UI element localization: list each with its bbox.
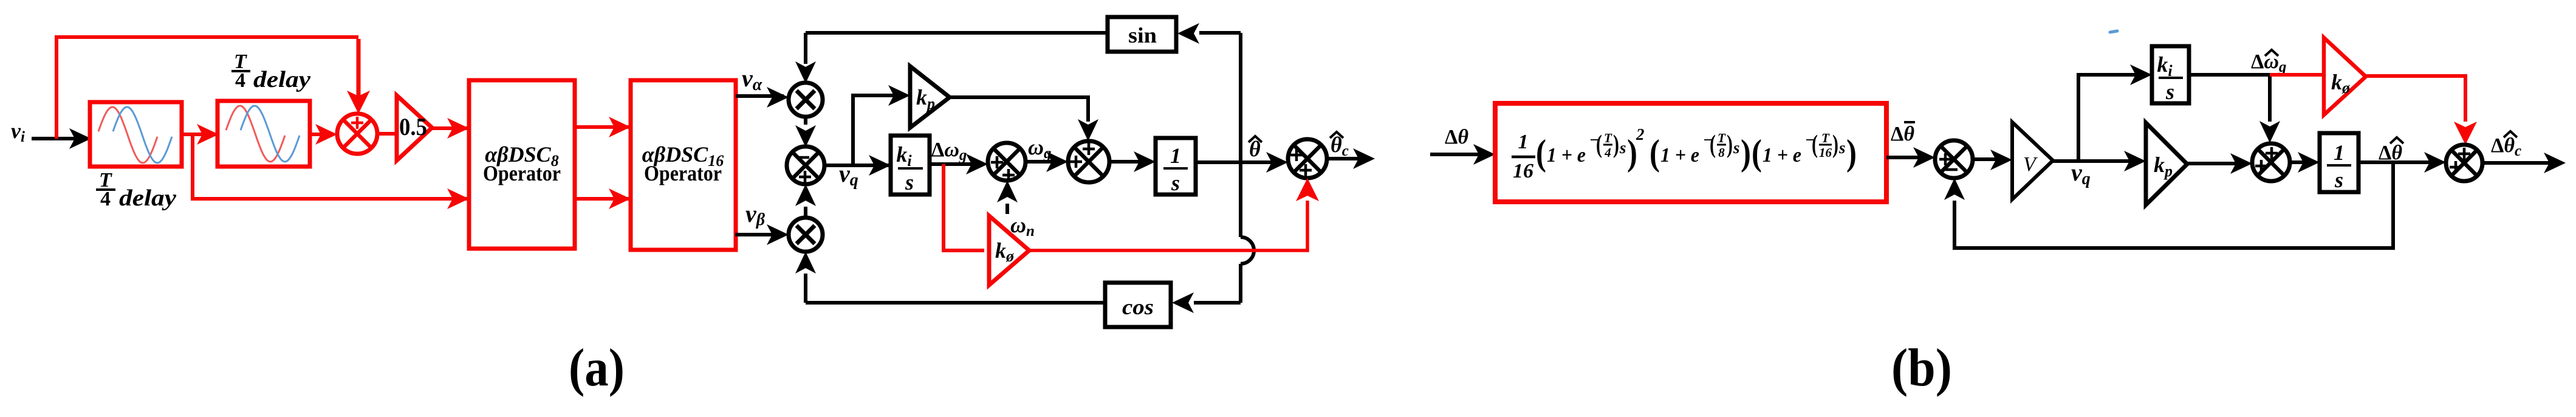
svg-text:4: 4 xyxy=(100,188,111,210)
waveform red sine box1 xyxy=(98,107,157,163)
arrowhead red into S4b top xyxy=(2454,122,2477,145)
arrowhead into S2b xyxy=(2230,153,2252,174)
arrowhead DSC16 upper input xyxy=(609,117,631,137)
wire hop over red line xyxy=(1241,237,1254,264)
wire v_q branch up to ki/s (b) xyxy=(2078,75,2147,161)
wire M1 to phase summing S2 xyxy=(804,117,807,125)
wire v_q branch up to kp xyxy=(853,95,905,165)
wire red top rail drop to multiplier xyxy=(357,39,361,97)
wire delay2 to multiplier xyxy=(310,133,333,136)
svg-text:s: s xyxy=(905,170,914,195)
svg-text:): ) xyxy=(1727,131,1733,159)
arrowhead kp into S3 top xyxy=(1078,119,1098,141)
svg-text:T: T xyxy=(1718,131,1726,145)
summing junction S2 (v_q) xyxy=(787,146,824,184)
arrowhead into ki/s (b) xyxy=(2130,64,2152,85)
svg-text:Δθ: Δθ xyxy=(1891,123,1914,145)
svg-text:delay: delay xyxy=(119,185,176,211)
svg-text:1: 1 xyxy=(1170,143,1181,168)
multiplier M1 v_alpha*sin xyxy=(789,83,823,117)
wire delta-theta input xyxy=(1430,153,1490,156)
svg-text:s: s xyxy=(1171,171,1180,195)
block T/4 delay 2 (waveform box) xyxy=(218,101,310,167)
gain block kp (b) xyxy=(2146,123,2187,205)
arrowhead v_q into ki/s block xyxy=(869,155,891,176)
wire theta_hat xyxy=(1196,160,1283,164)
multiplier M2 v_beta*cos xyxy=(789,218,823,252)
svg-text:2: 2 xyxy=(1636,125,1645,143)
svg-text:0.5: 0.5 xyxy=(399,113,427,140)
gain block V xyxy=(2012,122,2053,199)
svg-text:Δθ: Δθ xyxy=(2379,142,2402,164)
summing junction S1 (red, v_i + delayed) xyxy=(337,114,377,154)
wire feedback vertical theta to sin xyxy=(1239,33,1242,237)
summing junction S2b xyxy=(2252,143,2290,181)
svg-text:(: ( xyxy=(1596,131,1602,159)
arrowhead into S1b xyxy=(1913,147,1935,168)
wire kp to S2b xyxy=(2187,162,2247,165)
gain block 0.5 xyxy=(397,95,432,160)
block 1/s integrator (a) xyxy=(1156,138,1196,195)
arrowhead into sin box xyxy=(1177,23,1199,44)
wire omega_n xyxy=(1005,204,1009,214)
wire DSC8 to DSC16 upper xyxy=(575,125,631,129)
wire cos output to M2 column xyxy=(806,301,1105,305)
wire red to k_phi (b) xyxy=(2270,73,2324,77)
gain block k_phi (a) xyxy=(989,216,1029,285)
svg-text:4: 4 xyxy=(235,69,245,92)
arrowhead into multiplier left xyxy=(315,124,337,145)
wire delta-omega_g xyxy=(930,162,983,166)
stray blue mark xyxy=(2110,31,2117,32)
wire sin output to M1 column xyxy=(806,31,1108,35)
arrowhead v_alpha into multiplier M1 xyxy=(767,87,789,108)
svg-text:s: s xyxy=(2334,168,2343,192)
wire delta-theta-hat xyxy=(2358,160,2441,164)
arrowhead feedback into S1b bottom xyxy=(1944,178,1965,200)
arrowhead red into multiplier top xyxy=(347,91,370,114)
wire red tap delta-omega_g down to k_phi xyxy=(944,164,984,250)
wire bypass v_i to DSC8 lower input xyxy=(193,134,469,199)
arrowhead into DSC8 upper xyxy=(447,118,469,139)
arrowhead theta_hat_c output xyxy=(1353,148,1375,169)
arrowhead into delay box 2 xyxy=(197,124,219,145)
arrowhead into kp gain xyxy=(888,85,910,106)
wire omega_g to S3 xyxy=(1026,160,1063,164)
waveform blue delayed sine box1 xyxy=(113,107,172,163)
svg-text:): ) xyxy=(1846,133,1857,173)
wire S3 to integrator 1/s xyxy=(1109,160,1151,164)
wire feedback delta-theta-hat to S1b xyxy=(1954,162,2393,248)
arrowhead M2 output into S2 bottom xyxy=(795,184,816,206)
gain block kp (a) xyxy=(910,66,950,128)
wire ki/s output (b) xyxy=(2189,73,2270,77)
wire red feedforward top rail xyxy=(57,37,358,139)
summing junction S4 (omega_n add) xyxy=(988,143,1026,181)
arrowhead bypass into DSC8 xyxy=(447,188,469,209)
wire feedback vertical to cos xyxy=(1239,264,1242,303)
wire kp output to summing S3 xyxy=(950,97,1088,122)
summing junction S3 (PI output) xyxy=(1068,141,1109,182)
svg-text:(: ( xyxy=(1649,133,1660,173)
summing junction S4b xyxy=(2446,145,2482,181)
arrowhead cos into M2 bottom xyxy=(795,252,816,274)
svg-text:16: 16 xyxy=(1819,145,1832,160)
waveform blue delayed sine box2 xyxy=(241,106,300,162)
arrowhead v_i into delay box 1 xyxy=(69,128,91,149)
wire red k_phi output to S4b xyxy=(2366,76,2465,122)
arrowhead theta_hat into S5 xyxy=(1266,152,1288,173)
summing junction S1b xyxy=(1935,140,1973,178)
wire delta-omega-hat down to S2b xyxy=(2268,75,2272,122)
block sin xyxy=(1108,17,1176,52)
waveform red sine box2 xyxy=(226,106,285,162)
wire gain to DSC8 upper input xyxy=(432,126,469,130)
wire feedback into cos xyxy=(1194,301,1241,305)
svg-text:(: ( xyxy=(1812,131,1818,159)
svg-text:1 + e: 1 + e xyxy=(1660,144,1699,167)
block alpha-beta DSC16 Operator xyxy=(631,80,736,250)
svg-text:(a): (a) xyxy=(569,339,625,398)
svg-text:1 + e: 1 + e xyxy=(1547,144,1586,167)
arrowhead into summing S4 xyxy=(966,154,988,174)
arrowhead omega_n into S4 xyxy=(997,181,1018,202)
svg-text:cos: cos xyxy=(1122,295,1154,319)
wire S1b to gain V xyxy=(1973,157,2007,161)
svg-text:delay: delay xyxy=(253,67,310,92)
wire M2 up to S2 xyxy=(804,207,807,218)
wire red k_phi output to S5 xyxy=(1029,201,1307,250)
block ki/s integrator (b) xyxy=(2152,46,2189,103)
wire sin output down to M1 xyxy=(804,33,807,64)
wire S1 to gain 0.5 xyxy=(377,132,397,136)
svg-text:T: T xyxy=(1821,131,1830,145)
svg-text:s: s xyxy=(1838,139,1846,157)
arrowhead into cos box xyxy=(1172,292,1194,313)
wire v_q from S2 to ki/s xyxy=(824,164,891,167)
arrowhead v_beta into multiplier M2 xyxy=(767,224,789,245)
block cos xyxy=(1105,283,1171,327)
wire v_q (b) xyxy=(2053,159,2141,163)
arrowhead red into S5 bottom xyxy=(1296,178,1319,201)
svg-text:(b): (b) xyxy=(1891,339,1952,398)
svg-text:Δθ: Δθ xyxy=(1445,126,1468,148)
wire cos output up to M2 xyxy=(804,274,807,303)
svg-text:(: ( xyxy=(1752,133,1762,173)
svg-text:): ) xyxy=(1832,131,1838,159)
arrowhead omega_g into S3 xyxy=(1046,151,1068,172)
block ki/s integrator (a) xyxy=(891,136,930,195)
gain block k_phi (b) xyxy=(2324,38,2366,115)
arrowhead into kp (b) xyxy=(2124,151,2146,171)
wire DSC8 to DSC16 lower xyxy=(575,197,631,201)
svg-text:Operator: Operator xyxy=(644,161,722,185)
wire feedback into sin xyxy=(1199,31,1241,35)
block T/4 delay 1 (waveform box) xyxy=(90,102,182,167)
arrowhead into S2b top xyxy=(2259,121,2280,143)
svg-text:): ) xyxy=(1741,133,1751,173)
wire delta-theta-hat-c output xyxy=(2482,161,2561,165)
svg-text:(: ( xyxy=(1536,133,1546,173)
arrowhead DSC16 lower input xyxy=(609,188,631,209)
arrowhead into 1/s (a) xyxy=(1134,151,1156,172)
svg-text:sin: sin xyxy=(1128,23,1157,47)
wire theta_hat_c output xyxy=(1327,157,1370,160)
svg-text:1 + e: 1 + e xyxy=(1762,144,1801,167)
svg-text:Operator: Operator xyxy=(483,161,561,185)
arrowhead into DSC transfer block xyxy=(1473,144,1495,165)
wire v_alpha xyxy=(736,94,784,98)
svg-text:1: 1 xyxy=(1518,131,1529,153)
arrowhead into 1/s (b) xyxy=(2298,152,2320,173)
svg-text:s: s xyxy=(1733,139,1740,157)
svg-text:1: 1 xyxy=(2334,140,2345,165)
wire v_beta xyxy=(735,233,784,236)
svg-text:8: 8 xyxy=(1718,145,1725,160)
wire S2b to 1/s (b) xyxy=(2290,160,2315,164)
block DSC transfer function (red) xyxy=(1495,103,1886,202)
arrowhead output (b) xyxy=(2544,153,2566,173)
svg-text:s: s xyxy=(1619,139,1626,157)
arrowhead into S4b xyxy=(2424,152,2446,173)
wire delay1 to delay2 xyxy=(182,133,216,136)
svg-text:): ) xyxy=(1613,131,1619,159)
arrowhead sin into M1 top xyxy=(795,61,816,83)
arrowhead M1 output into S2 xyxy=(795,125,816,147)
wire delta-theta-bar to S1b xyxy=(1886,156,1930,159)
svg-text:s: s xyxy=(2165,80,2174,104)
svg-text:(: ( xyxy=(1710,131,1716,159)
summing junction S5 (theta_c) xyxy=(1288,139,1327,178)
block alpha-beta DSC8 Operator xyxy=(469,80,575,249)
arrowhead into V xyxy=(1990,150,2012,170)
svg-text:T: T xyxy=(1604,131,1612,145)
svg-text:4: 4 xyxy=(1604,145,1611,160)
svg-text:16: 16 xyxy=(1513,160,1533,182)
wire v_i input xyxy=(32,137,88,140)
block 1/s integrator (b) xyxy=(2320,133,2358,192)
